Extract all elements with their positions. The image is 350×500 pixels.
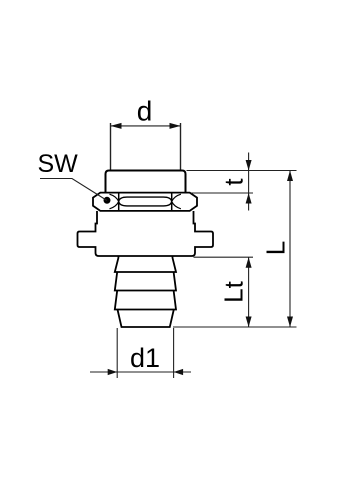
hose barb segment 1 (115, 256, 176, 272)
hex nut outline (93, 193, 197, 211)
extension line flange bottom (for Lt) (194, 256, 254, 258)
dimension L bottom arrow (pointing down) (287, 317, 293, 328)
hex nut right facet line (171, 193, 173, 211)
hose barb segment 3 (115, 291, 176, 310)
hose barb tip segment 4 (118, 310, 174, 328)
hex nut chamfer arcs on outer faces (110, 194, 181, 209)
extension line top (collar top, for t and L) (187, 170, 297, 172)
hose barb segment 2 (115, 272, 176, 291)
dimension d1 line (90, 371, 191, 373)
dimension d1 right arrow (pointing left) (174, 369, 184, 375)
dimension Lt top arrow (pointing up) (246, 257, 252, 268)
dimension Lt vertical line (248, 257, 250, 327)
dimension d left arrow (111, 123, 122, 129)
SW dot on nut (104, 197, 111, 204)
svg-text:Lt: Lt (219, 280, 249, 302)
hex nut chamfer arcs on centre facet (119, 197, 172, 206)
dimension t lower arrow (pointing up) (246, 193, 252, 204)
body and flange with tabs (78, 211, 214, 256)
dimension d right arrow (170, 123, 181, 129)
dimension d1 right extension line (173, 328, 175, 378)
svg-text:t: t (219, 178, 249, 186)
thread cylinder right side / extension line (180, 123, 182, 171)
dimension t upper arrow (pointing down) (246, 160, 252, 171)
extension line nut top (for t) (191, 192, 253, 194)
hex nut left facet line (118, 193, 120, 211)
dimension Lt bottom arrow (pointing down) (246, 317, 252, 328)
dimension t vertical line (248, 153, 250, 211)
dimension L vertical line (289, 171, 291, 328)
svg-text:SW: SW (38, 150, 79, 178)
SW leader line (40, 179, 107, 201)
collar (106, 171, 186, 193)
dimension d1 left arrow (pointing right) (108, 369, 118, 375)
dimension d1 left extension line (116, 328, 118, 378)
svg-text:L: L (261, 241, 291, 255)
thread cylinder left side / extension line (110, 123, 112, 171)
svg-text:d1: d1 (130, 343, 160, 373)
dimension L top arrow (pointing up) (287, 171, 293, 182)
extension line barb bottom (for L and Lt) (173, 326, 297, 328)
dimension d line (111, 125, 181, 127)
svg-text:d: d (137, 96, 153, 127)
